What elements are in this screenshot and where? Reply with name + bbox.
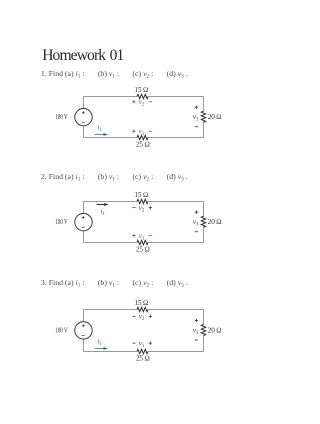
svg-text:v2: v2 [139, 98, 145, 108]
svg-text:v1: v1 [139, 339, 145, 349]
label v2 polarity circuit 2 [132, 207, 135, 209]
voltage source 180 V circuit 2 [75, 213, 92, 230]
wire: bottom-left segment circuit 3 [84, 339, 138, 352]
svg-text:i1: i1 [97, 338, 102, 348]
resistor 15 ohm circuit 1 [137, 94, 148, 98]
resistor 20 ohm circuit 1 [201, 111, 205, 122]
resistor 20 ohm circuit 3 [201, 325, 205, 336]
svg-text:15 Ω: 15 Ω [134, 86, 148, 94]
svg-text:i1: i1 [101, 208, 106, 217]
label v2 polarity circuit 3 [132, 315, 135, 317]
svg-text:180 V: 180 V [55, 218, 68, 226]
svg-text:25 Ω: 25 Ω [136, 246, 150, 254]
wire: bottom-right segment circuit 1 [148, 122, 204, 137]
svg-text:i1: i1 [97, 124, 102, 134]
label v1 polarity circuit 3 [132, 342, 135, 344]
label v1 polarity circuit 2 [132, 234, 135, 237]
wire: top-left segment circuit 2 [84, 202, 138, 214]
label v3 polarity circuit 2 [195, 210, 198, 213]
problem 2 text [41, 172, 188, 182]
label v3 polarity circuit 1 [195, 105, 198, 108]
label v2 polarity circuit 1 [132, 100, 135, 103]
svg-text:v1: v1 [139, 232, 145, 242]
wire: bottom-left segment circuit 1 [84, 125, 138, 137]
svg-text:v3: v3 [193, 113, 199, 123]
wire: top-left segment circuit 1 [84, 97, 138, 109]
wire: bottom-right segment circuit 3 [148, 336, 204, 352]
svg-text:180 V: 180 V [55, 113, 68, 121]
wire: top-right segment circuit 1 [148, 97, 204, 112]
svg-text:v3: v3 [193, 218, 199, 228]
svg-text:20 Ω: 20 Ω [208, 326, 222, 334]
label v1 polarity circuit 1 [132, 130, 135, 133]
svg-text:v3: v3 [193, 326, 199, 336]
svg-text:15 Ω: 15 Ω [134, 299, 148, 307]
title Homework 01 [42, 48, 123, 63]
wire: top-left segment circuit 3 [84, 310, 138, 322]
wire: top-right segment circuit 2 [148, 202, 204, 217]
problem 3 text [41, 278, 188, 288]
voltage source 180 V circuit 3 [75, 322, 92, 339]
svg-text:20 Ω: 20 Ω [208, 113, 222, 121]
svg-text:25 Ω: 25 Ω [136, 355, 150, 363]
resistor 20 ohm circuit 2 [201, 216, 205, 227]
svg-text:15 Ω: 15 Ω [134, 191, 148, 199]
svg-text:25 Ω: 25 Ω [136, 141, 150, 149]
resistor 25 ohm circuit 3 [137, 349, 148, 353]
svg-text:20 Ω: 20 Ω [208, 218, 222, 226]
label v3 polarity circuit 3 [195, 319, 198, 322]
wire: top-right segment circuit 3 [148, 310, 204, 325]
problem 1 text [41, 69, 188, 79]
resistor 25 ohm circuit 2 [137, 240, 148, 244]
resistor 15 ohm circuit 2 [137, 199, 148, 203]
svg-text:v2: v2 [139, 313, 145, 323]
wire: bottom-right segment circuit 2 [148, 227, 204, 242]
svg-text:v2: v2 [139, 204, 145, 214]
resistor 15 ohm circuit 3 [137, 307, 148, 311]
voltage source 180 V circuit 1 [75, 108, 92, 125]
svg-text:v1: v1 [139, 127, 145, 137]
current arrow i1 circuit 1 [95, 134, 105, 136]
current arrow i1 circuit 2 [97, 204, 105, 206]
resistor 25 ohm circuit 1 [137, 135, 148, 139]
wire: bottom-left segment circuit 2 [84, 230, 138, 242]
svg-text:180 V: 180 V [55, 326, 68, 334]
current arrow i1 circuit 3 [95, 348, 105, 350]
